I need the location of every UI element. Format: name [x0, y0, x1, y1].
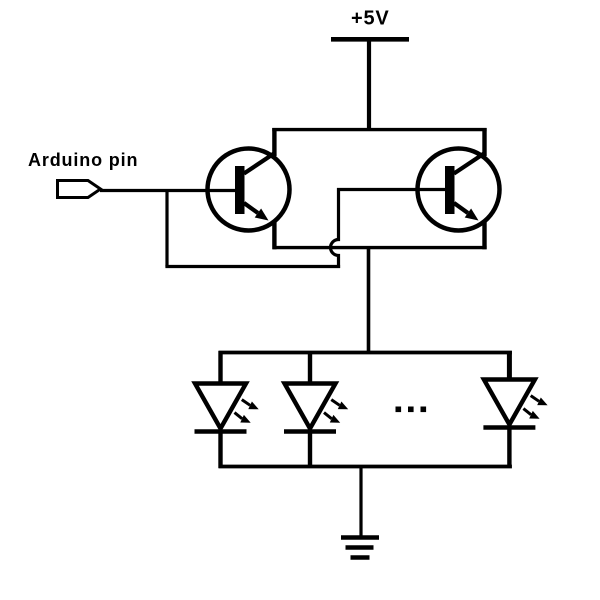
- wire riser to Q2 base: [337, 188, 449, 191]
- wire LED bus to ground: [359, 466, 362, 539]
- LED D3: [483, 351, 547, 468]
- wire coupling down from pin node: [165, 189, 168, 267]
- wire coupling riser with hop over emitter bus: [331, 188, 339, 268]
- ground: [341, 538, 379, 558]
- wire Q2 emitter: [482, 221, 486, 249]
- transistor Q2: [418, 149, 500, 231]
- wire coupling across bottom: [165, 265, 340, 268]
- wire Q2 collector: [482, 128, 486, 156]
- wire feed from emitter bus to LED bus: [367, 246, 371, 354]
- wire Q1 emitter: [272, 221, 276, 249]
- svg-text:+5V: +5V: [351, 8, 390, 30]
- wire emitter bus: [273, 246, 487, 249]
- wire Q1 collector: [272, 128, 276, 156]
- wire LED top bus: [219, 351, 512, 355]
- wire LED bottom bus: [219, 465, 512, 469]
- +5V power rail bar: [331, 37, 409, 42]
- transistor Q1: [208, 149, 290, 231]
- svg-text:Arduino pin: Arduino pin: [28, 150, 138, 170]
- ellipsis dots: [396, 407, 427, 413]
- LED D1: [195, 351, 259, 468]
- LED D2: [284, 351, 348, 468]
- wire top rail: [272, 128, 486, 131]
- wire +5V rail to top rail: [367, 39, 371, 131]
- wire pin to Q1 base: [100, 189, 237, 192]
- arduino pin connector: [58, 181, 101, 198]
